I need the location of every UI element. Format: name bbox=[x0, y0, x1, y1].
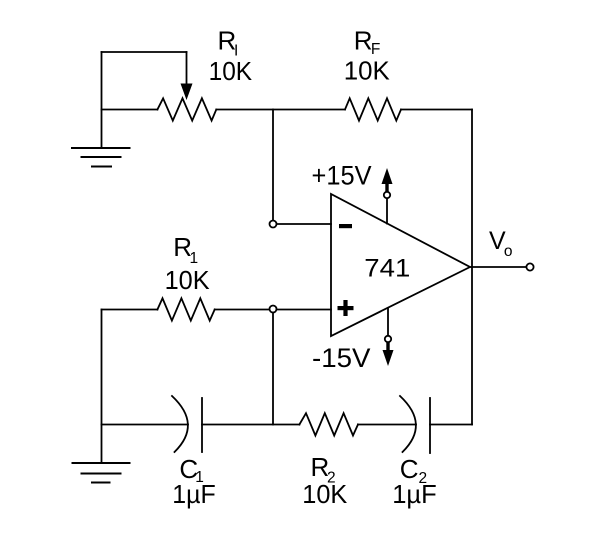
wire: RI right to RF left with junction node bbox=[216, 109, 345, 111]
node: non-inverting input (open circle) bbox=[270, 306, 277, 313]
wire: R1 to non-inverting node bbox=[215, 309, 270, 311]
op-amp U1 triangle bbox=[331, 194, 470, 336]
wire: pot top wire horizontal bbox=[102, 51, 187, 53]
capacitor C1 curved plate bbox=[172, 396, 188, 452]
capacitor C2 straight plate bbox=[429, 398, 431, 453]
op-amp minus symbol bbox=[339, 224, 352, 228]
wire: non-inverting node down to bottom wire bbox=[272, 313, 274, 425]
wire: bottom wire left segment to C1 bbox=[102, 424, 189, 426]
wire: inverting input to op-amp bbox=[277, 223, 332, 225]
svg-text:R: R bbox=[354, 26, 373, 56]
wire: RF right to right rail bbox=[401, 109, 472, 111]
capacitor C2 curved plate bbox=[400, 396, 416, 452]
wire: V+ pin inside triangle bbox=[386, 199, 388, 224]
wire: bottom wire C1 to R2 bbox=[202, 424, 299, 426]
-15V supply arrow bbox=[383, 343, 394, 367]
wire: R2 to C2 bbox=[358, 424, 416, 426]
ground (top-left) bbox=[72, 148, 130, 167]
resistor RF bbox=[345, 98, 401, 120]
op-amp plus symbol bbox=[338, 300, 354, 316]
node: output terminal circle bbox=[526, 263, 533, 270]
svg-text:10K: 10K bbox=[344, 56, 391, 86]
wire: non-inverting node to op-amp bbox=[277, 309, 332, 311]
wire: top-left vertical from pot top wire to ground bbox=[101, 52, 103, 148]
wire: pot wiper stem bbox=[186, 52, 188, 85]
svg-text:-15V: -15V bbox=[312, 343, 371, 373]
potentiometer RI (resistor body) bbox=[157, 98, 216, 120]
svg-text:+15V: +15V bbox=[312, 161, 372, 191]
node: V- pin circle bbox=[385, 336, 391, 342]
wire: right rail vertical bbox=[471, 110, 473, 425]
+15V supply arrow bbox=[382, 168, 393, 192]
wiper arrowhead of potentiometer RI bbox=[181, 84, 193, 101]
wire: junction down to inverting input node bbox=[272, 110, 274, 221]
wire: V- pin inside triangle bbox=[387, 308, 389, 336]
svg-text:1µF: 1µF bbox=[392, 479, 437, 509]
svg-text:10K: 10K bbox=[165, 265, 211, 295]
svg-text:o: o bbox=[504, 243, 513, 260]
wire: C2 to right rail bbox=[430, 424, 472, 426]
wire: left rail from R1 down to bottom ground bbox=[101, 310, 103, 464]
node: inverting input (open circle) bbox=[270, 221, 277, 228]
node: V+ pin circle bbox=[384, 192, 390, 198]
svg-text:1µF: 1µF bbox=[172, 479, 216, 509]
wire: ground to RI left terminal bbox=[102, 109, 158, 111]
capacitor C1 straight plate bbox=[201, 398, 203, 452]
resistor R1 bbox=[157, 298, 214, 320]
svg-text:741: 741 bbox=[364, 255, 410, 283]
wire: output from apex to terminal bbox=[470, 266, 527, 268]
svg-text:10K: 10K bbox=[302, 479, 348, 509]
wire: left rail to R1 bbox=[102, 309, 158, 311]
svg-text:10K: 10K bbox=[209, 56, 253, 86]
ground (bottom-left) bbox=[73, 463, 130, 483]
resistor R2 bbox=[299, 413, 358, 435]
